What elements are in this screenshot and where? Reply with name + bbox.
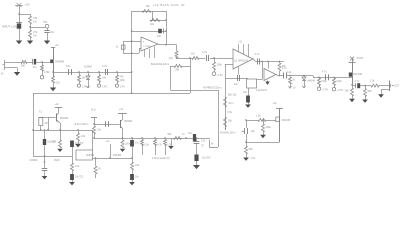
label R33 2.2k [167, 144, 172, 146]
wire C3 to gate [37, 62, 51, 64]
label R38 1k [75, 165, 80, 168]
svg-text:1N34A: 1N34A [84, 65, 92, 69]
circuit schematic [0, 0, 400, 190]
resistor R4 1.5M [41, 65, 44, 71]
wire R20 to Q2 [266, 120, 276, 122]
label voltage R22 [293, 87, 296, 90]
wire R28 top [78, 130, 80, 133]
label at R19 ground [251, 158, 256, 160]
transistor Q4 2N3904 [56, 113, 59, 122]
label Q2 2SC945 [282, 119, 291, 122]
resistor R20 1k [258, 119, 266, 122]
svg-text:10u: 10u [243, 91, 248, 94]
label R8 47k [120, 76, 125, 79]
transistor Q1 2N5486 [50, 48, 53, 77]
node rail x131 [131, 92, 133, 94]
resistor R28 1.8k [77, 133, 80, 141]
node y158 x95 [95, 157, 97, 159]
ground at bus x171 [168, 146, 173, 149]
label R23 100k [321, 80, 327, 83]
wire fb riser x262 [262, 62, 264, 80]
label OUT [394, 86, 399, 88]
ground below C21 [42, 176, 48, 179]
wire 39k loop [171, 66, 175, 68]
ground at input jack [14, 72, 20, 76]
node Q3 emitter [351, 84, 353, 86]
wire R7 top [99, 72, 101, 75]
ground below C2 [44, 41, 50, 45]
capacitor C24 10u 25V [43, 139, 46, 145]
node left border y130 [32, 129, 34, 131]
node bus x196 [196, 137, 198, 139]
wire D2 drop [304, 76, 306, 78]
resistor R7 1.8k [98, 75, 101, 82]
label voltage R6 [82, 86, 87, 89]
node +in crossing [131, 40, 133, 42]
label TP1 [43, 21, 48, 24]
label C10 4.7u [282, 67, 287, 70]
svg-text:560: 560 [21, 65, 26, 68]
node R22 [289, 75, 291, 77]
wire col x196 [196, 138, 198, 142]
wire xtal riser [40, 116, 42, 119]
label C14 4.7u [355, 80, 360, 83]
svg-text:100u: 100u [125, 143, 131, 145]
wire D1 drop [88, 72, 90, 76]
svg-text:100k: 100k [336, 80, 342, 83]
label R31 1.5k [144, 144, 149, 146]
label C3 [33, 66, 38, 69]
node R16 bottom [279, 75, 281, 77]
test point at R24 [332, 88, 335, 91]
label osc [357, 58, 364, 60]
node U3 in [267, 61, 269, 63]
wire loop mid riser [152, 11, 154, 20]
svg-text:47u: 47u [33, 66, 38, 69]
capacitor C16 10u [130, 140, 134, 147]
label rail [203, 86, 222, 89]
label C19 b [201, 145, 204, 147]
svg-text:1M: 1M [191, 53, 194, 56]
node R8 top [116, 71, 118, 73]
resistor R29 1.8k [93, 126, 96, 134]
wire ladder bottom [225, 127, 227, 130]
node gate bias [41, 61, 43, 63]
wire R23 tail [319, 86, 321, 88]
capacitor C2 10n label [50, 30, 55, 34]
resistor R17 50k coil [224, 97, 227, 107]
svg-text:+12: +12 [273, 102, 278, 105]
wire R13 to C7 [199, 58, 205, 60]
wire R25 tail [352, 96, 354, 99]
node Q1 source [52, 71, 54, 73]
svg-text:1.5M: 1.5M [44, 71, 50, 74]
svg-text:1.8k: 1.8k [81, 135, 86, 138]
svg-text:27k: 27k [33, 30, 38, 34]
resistor R24 100k [333, 78, 336, 86]
ground below R28 [75, 144, 81, 147]
node R24 [333, 76, 335, 78]
ground below R37 [57, 149, 62, 152]
node xtal bottom [40, 129, 42, 131]
label C19 a [201, 141, 206, 143]
capacitor C1 electrolytic [16, 23, 22, 29]
box module [76, 150, 93, 160]
meter box [209, 136, 219, 148]
svg-text:TC: TC [201, 145, 204, 147]
node R21 top [262, 119, 264, 121]
wire loop right vertical [166, 11, 168, 45]
wire R6 tail [79, 82, 81, 84]
wire y53 link [123, 53, 139, 55]
wire bias col top [246, 120, 248, 128]
wire -in riser [139, 48, 141, 53]
svg-text:1.0k: 1.0k [370, 80, 375, 83]
node x132 y158 [131, 157, 133, 159]
capacitor C19 [194, 142, 200, 144]
svg-text:1.2k: 1.2k [287, 71, 292, 74]
label R19 560 [249, 148, 254, 151]
svg-text:2k in: 2k in [91, 109, 97, 111]
ground below R25 [349, 99, 355, 102]
label R15 100k [217, 64, 223, 67]
label row mv [74, 124, 89, 126]
label R17 50k [228, 94, 237, 97]
svg-text:4.7u: 4.7u [355, 80, 360, 83]
test point TP1 [45, 24, 49, 28]
label R26 560 [368, 90, 373, 93]
svg-text:2.5mm audio (2): 2.5mm audio (2) [152, 157, 170, 160]
ground below R19 [243, 158, 249, 161]
wire R26 drop [365, 86, 367, 89]
svg-text:100k: 100k [217, 64, 223, 67]
node bus x132 [131, 137, 133, 139]
ground below C20 [193, 165, 200, 169]
svg-text:OCXO: OCXO [357, 58, 364, 60]
op-amp U1 pin stubs [145, 47, 155, 59]
label R12 [169, 57, 173, 60]
label +12 at Q1 [55, 44, 60, 47]
resistor R6 1M [78, 75, 81, 82]
node Q4 emitter [59, 129, 61, 131]
wire Q5 collector [122, 113, 124, 120]
label +12 x110 [106, 141, 111, 143]
label R32 4.7k [157, 144, 162, 146]
capacitor C7 4.7u label [202, 50, 208, 54]
resistor R27 1k [371, 84, 379, 87]
wire bias col bottom [246, 134, 248, 146]
svg-text:27k: 27k [33, 16, 38, 20]
label +7.5V at R24 [337, 89, 344, 92]
wire R21 tail [263, 132, 265, 135]
svg-text:1M: 1M [82, 77, 85, 80]
wire xtal bottom [40, 126, 42, 131]
svg-text:4M: 4M [45, 123, 48, 125]
svg-text:100k: 100k [321, 80, 327, 83]
wire gnd stub x171 [171, 138, 173, 146]
wire box to C11 [248, 88, 250, 96]
node loop y20 [165, 19, 167, 21]
wire loop mid y20 [150, 20, 166, 22]
wire C23 tail [72, 180, 74, 182]
wire tee to divider [19, 14, 30, 16]
label input jack [1, 73, 4, 76]
label R17 row2 [229, 103, 235, 105]
input jack J1 [3, 60, 10, 70]
op-amp U2 pin stubs [239, 44, 249, 57]
resistor R37 2.2M [59, 140, 62, 148]
label R4 1.5M [44, 71, 50, 74]
wire rail drop x218 [218, 90, 220, 136]
wire to jack [379, 85, 388, 87]
svg-text:LT1028: LT1028 [144, 46, 152, 48]
wire R32 tail [155, 146, 157, 156]
crystal X1 [39, 118, 43, 126]
label R14 39k [175, 68, 180, 71]
capacitor C9 4.7u [258, 59, 260, 65]
svg-text:BALANCE 22k in: BALANCE 22k in [151, 63, 170, 66]
label Q1 2N5486 [55, 60, 65, 64]
test point at R23 [317, 87, 320, 90]
svg-text:INPUT +12V: INPUT +12V [2, 25, 17, 29]
label level row [256, 89, 268, 92]
node x177 y58 [176, 57, 178, 59]
wire C11 gnd stub [248, 103, 250, 105]
wire servo loop top y11 [132, 11, 166, 13]
wire D2 tail [304, 80, 306, 86]
wire chain y77 [313, 77, 352, 79]
capacitor C20 10u 25V [194, 155, 198, 162]
label R7 1.8k [102, 77, 107, 80]
wire y156 row [33, 156, 72, 158]
svg-text:(2k): (2k) [169, 57, 173, 60]
wire C14 out [360, 85, 371, 87]
label voltage R8 [120, 86, 125, 89]
node x44 bus [44, 129, 46, 131]
resistor R5 source 220 [52, 76, 55, 83]
svg-text:10n: 10n [66, 64, 71, 68]
resistor R33 2.2k [164, 140, 167, 146]
node R7 top [98, 71, 100, 73]
label above R22 [287, 71, 292, 74]
wire U1 +in drop [123, 41, 125, 53]
svg-text:+7.5V: +7.5V [217, 74, 224, 77]
wire C20 tail [196, 161, 198, 165]
wire out riser x177 [176, 45, 178, 51]
node supply tee [18, 13, 20, 15]
capacitor C4 10n [69, 69, 72, 75]
wire col x132 mid [132, 147, 134, 163]
wire R8 top [117, 72, 119, 75]
wire y58 to R13 [177, 58, 193, 60]
resistor R2 27k label [33, 30, 38, 34]
capacitor C17 10u [130, 174, 134, 180]
node R28 [77, 129, 79, 131]
wire R8 tail [117, 82, 119, 84]
wire left border [33, 93, 35, 156]
wire C1 to ground [19, 29, 21, 41]
label R35 50 [98, 168, 101, 171]
wire R15 to TP [214, 70, 216, 72]
svg-text:4.7u: 4.7u [322, 71, 327, 74]
wire C7 to U2 [210, 58, 233, 60]
test point below R8 [115, 84, 118, 87]
svg-text:1.0k: 1.0k [135, 164, 140, 167]
node bus x165 [164, 137, 166, 139]
svg-text:10u 25V: 10u 25V [75, 143, 84, 145]
label Q4 2N3904 [60, 117, 69, 120]
label +12 cell2 left [91, 109, 97, 111]
resistor R1 27k [29, 16, 32, 24]
svg-text:165: 165 [345, 90, 350, 93]
wire R16 col [279, 62, 281, 64]
svg-text:2.2k 1M in: 2.2k 1M in [256, 89, 268, 92]
capacitor C22 10u [70, 141, 74, 148]
wire R24 tail [334, 86, 336, 88]
label +12 BIAS COIL IN [153, 3, 185, 7]
svg-text:100k: 100k [266, 126, 272, 129]
wire R33 tail [165, 146, 167, 156]
svg-text:+0.9mV 22k in: +0.9mV 22k in [74, 124, 89, 126]
wire cell2 col [94, 118, 96, 127]
wire U1 output [158, 44, 177, 46]
capacitor C12 bias [245, 128, 248, 134]
wire col x72 [72, 147, 74, 163]
node R16 top [279, 61, 281, 63]
wire U3 drop [268, 62, 270, 69]
wire R29 tail [94, 134, 96, 138]
capacitor C14 output electrolytic [356, 83, 361, 88]
svg-text:2.2M: 2.2M [51, 141, 56, 143]
wire rail y90 [171, 90, 219, 92]
label R30 1k [135, 164, 140, 167]
wire xtal parallel [48, 117, 50, 130]
supply tick Q5 [118, 113, 127, 115]
capacitor C7 4.7u [207, 55, 209, 61]
wire R31 tail [142, 146, 144, 156]
label R1 tol [33, 21, 37, 24]
op-amp U3 [264, 69, 276, 81]
ground below R26 [362, 100, 368, 103]
wire D1 lead [88, 79, 90, 87]
node loop y31 [165, 30, 167, 32]
test point below R7 [97, 84, 100, 87]
wire U3 arrow stem [267, 81, 269, 82]
wire R15 drop [214, 58, 216, 62]
wire chain step [313, 76, 315, 78]
wire U3 out [276, 75, 284, 76]
wire tap to TP1 [30, 27, 45, 29]
resistor R10 40k [150, 19, 160, 22]
wire R30 tail [132, 170, 134, 174]
ground below C23 [69, 182, 75, 185]
node servo y31 [131, 30, 133, 32]
wire R19 tail [246, 154, 248, 158]
wire x44 col top [44, 130, 46, 139]
resistor R30 1k [131, 162, 134, 170]
svg-text:2N5486: 2N5486 [113, 155, 122, 157]
label R18 50k [228, 120, 233, 123]
wire supply down [19, 5, 21, 24]
label TP U2 in [217, 74, 224, 77]
svg-text:1.8k: 1.8k [102, 77, 107, 80]
wire divider top [30, 14, 32, 16]
label R21 100k [266, 126, 272, 129]
label bus 10u [188, 133, 193, 135]
ground below C11 [245, 105, 251, 108]
resistor R3 560 [21, 61, 27, 64]
svg-text:2k in: 2k in [229, 103, 235, 105]
svg-text:220: 220 [56, 82, 61, 85]
label C6 10u [157, 35, 162, 38]
label R22 val [292, 79, 295, 82]
label U2 supply [238, 42, 243, 44]
node divider tap [29, 26, 31, 28]
label C22 [75, 143, 84, 145]
resistor R8 47k [116, 75, 119, 82]
label INPUT +12V [2, 25, 17, 29]
svg-text:2N5486: 2N5486 [55, 60, 65, 64]
test point below R6 [77, 84, 80, 87]
label C24 [47, 142, 56, 144]
node after C4 [78, 71, 80, 73]
label U1 type [144, 46, 152, 48]
label C23 [75, 177, 84, 179]
label C20 [202, 158, 211, 160]
node R23 [318, 76, 320, 78]
node x190 y58 [189, 57, 191, 59]
label C17 [135, 177, 140, 179]
node U2 in [213, 57, 215, 59]
ground below R36 [120, 149, 125, 152]
svg-text:M: M [211, 142, 213, 145]
svg-text:2.4V: 2.4V [120, 86, 125, 89]
wire U2 feedback bottom [225, 78, 248, 80]
supply bar cell2 left [91, 117, 97, 119]
node bus x155 [154, 137, 156, 139]
wire Q5 emitter [120, 126, 123, 140]
svg-text:4.7u: 4.7u [102, 64, 108, 68]
wire loop low y31 [132, 31, 166, 33]
resistor R16 50k [278, 63, 281, 71]
wire R1-R2 [30, 24, 32, 30]
level box [247, 79, 257, 88]
wire R35 tail [95, 174, 97, 178]
wire xtal top [39, 117, 56, 119]
svg-text:+12: +12 [55, 103, 60, 106]
diode D1 1N34A [86, 76, 90, 80]
wire R26 tail [365, 97, 367, 100]
label R28 1.8k [81, 135, 86, 138]
wire x44 col [44, 145, 46, 168]
ground below R5 [50, 88, 56, 92]
transistor Q3 2SC945 [349, 62, 353, 85]
label +12 Q5 [119, 109, 124, 111]
diode D1 1N34A label [84, 65, 92, 69]
label C11 10u [243, 91, 248, 94]
svg-text:1.5V: 1.5V [251, 158, 256, 160]
label R11 [116, 46, 119, 49]
label q row a [86, 155, 95, 157]
label bias row [220, 131, 236, 134]
label R13 1M [191, 53, 194, 56]
resistor R2 27k [29, 30, 32, 38]
resistor R12 2k [175, 51, 178, 58]
wire R28 tail [78, 141, 80, 144]
wire rail y90 riser [170, 66, 172, 90]
resistor R36 [121, 140, 124, 148]
label R25 165 [345, 90, 350, 93]
